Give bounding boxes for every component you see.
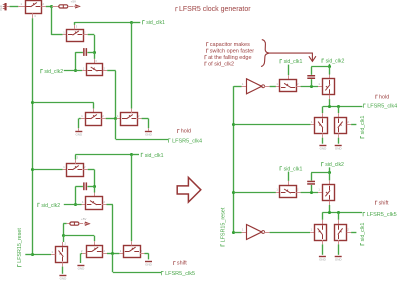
big transformation arrow	[177, 177, 201, 202]
junction shift node	[111, 252, 114, 255]
wire +5V node down	[51, 6, 53, 35]
junction sid_clk2 lower	[74, 203, 77, 206]
svg-text:2: 2	[43, 2, 45, 6]
pin 3 of S19 (bottom)	[322, 240, 324, 244]
pin 4 of S13 (top)	[288, 75, 290, 79]
ground GND5	[145, 262, 153, 267]
svg-text:2: 2	[138, 114, 140, 118]
net label LFSR15_reset (right)	[220, 207, 226, 246]
svg-text:1: 1	[52, 250, 54, 254]
wire to C4 top	[311, 172, 330, 174]
pin 3 of S14 (bottom)	[329, 95, 331, 99]
svg-text:3: 3	[76, 25, 78, 29]
switch S1	[26, 1, 42, 14]
junction LFSR15_reset	[31, 253, 34, 256]
title text "LFSR5 clock generator"	[176, 6, 251, 13]
comment line 2 "switch open faster"	[207, 48, 255, 54]
pin 4 of S2 (top)	[74, 25, 76, 29]
wire S18 down to shift node	[329, 205, 331, 212]
wire S17 right	[301, 192, 318, 194]
wire C1 left lead	[75, 52, 83, 54]
gnd pin S5	[148, 128, 150, 131]
pin 2 of S1	[41, 6, 45, 8]
wire shift to S20 top	[338, 212, 340, 219]
pin 2 of S16 (top)	[338, 113, 340, 117]
wire V4 to S17 left	[234, 192, 276, 194]
pin 2 of S20 (top)	[338, 220, 340, 224]
wire S13 right	[301, 86, 318, 88]
svg-text:1: 1	[318, 82, 320, 86]
solder jumper SJ2	[70, 222, 79, 226]
wire sid_clk2 stub down lower	[329, 167, 331, 173]
wire TP1 to S1	[10, 6, 19, 8]
pin number 1 of S5	[117, 114, 119, 118]
svg-text:1: 1	[117, 114, 119, 118]
junction hold S14	[328, 105, 331, 108]
pin number 1 of S12	[120, 249, 122, 253]
wire down to S11 top	[94, 236, 96, 242]
capacitor C2	[83, 182, 87, 190]
wire LFSR5_clk4 horizontal	[116, 139, 168, 141]
svg-text:GND: GND	[60, 276, 68, 280]
svg-text:LFSR5 clock generator: LFSR5 clock generator	[179, 6, 251, 13]
svg-text:LFSR15_reset: LFSR15_reset	[220, 207, 226, 242]
pin 1 of S12	[119, 253, 123, 255]
wire S3 right	[107, 70, 116, 72]
wire V3 sid_clk1 vertical	[131, 155, 133, 242]
wire label to S13 top	[288, 65, 290, 76]
comment line 1 "capacitor makes"	[207, 42, 250, 48]
svg-text:2: 2	[65, 242, 67, 246]
wire S7 right	[107, 204, 113, 206]
text shift (right)	[375, 200, 389, 206]
svg-text:LFSR5_clk5: LFSR5_clk5	[367, 212, 397, 218]
pin 2 of S4	[101, 118, 105, 120]
wire +5V lower lead	[63, 223, 66, 225]
pin 4 of S17 (top)	[288, 181, 290, 185]
pin number 1 of S6	[63, 165, 65, 169]
wire C2 left lead	[75, 186, 83, 188]
wire down to S10 top	[63, 236, 65, 242]
pin 1 of S7	[82, 204, 86, 206]
svg-text:1: 1	[311, 120, 313, 124]
svg-text:3: 3	[95, 59, 97, 63]
wire U1 to S13	[270, 86, 276, 88]
comment line 3 "at the falling edge"	[205, 55, 252, 61]
wire V4 top to buffer U1	[234, 86, 242, 88]
junction V1 tap mid	[31, 168, 34, 171]
wire C1 right lead	[87, 52, 94, 54]
switch S10	[56, 247, 68, 263]
wire S7 down to shift node	[112, 205, 114, 254]
wire C2 to sid_clk2 node	[75, 187, 77, 205]
switch S19	[315, 225, 327, 241]
pin 2 of S17	[296, 192, 300, 194]
pin 1 of S19	[310, 232, 314, 234]
pin 2 of U1 output	[264, 86, 269, 88]
svg-text:sid_clk1: sid_clk1	[284, 59, 303, 65]
svg-text:GND: GND	[145, 263, 153, 267]
svg-text:capacitor makes: capacitor makes	[210, 42, 250, 48]
pin 1 of S5	[117, 118, 121, 120]
junction shift S18	[328, 211, 331, 214]
svg-text:sid_clk2: sid_clk2	[41, 203, 60, 209]
pin 2 of S18 (top)	[329, 180, 331, 184]
wire S6 top up	[75, 155, 77, 160]
wire V1 vertical from S1 down	[32, 18, 34, 254]
net label sid_clk1 (top right)	[280, 59, 302, 65]
pin number 2 of S17	[297, 188, 299, 192]
wire S2 right	[88, 34, 95, 36]
pin 3 of S18 (bottom)	[329, 201, 331, 205]
wire shift node down	[112, 253, 114, 272]
net label sid_clk2 (lower left)	[38, 203, 60, 209]
gnd pin S4	[78, 128, 80, 131]
svg-text:1: 1	[242, 228, 244, 232]
comment line 4 "of sid_clk2"	[205, 61, 234, 67]
ground GND2	[145, 132, 153, 137]
pin 2 of S7	[102, 204, 106, 206]
pin 3 of S15 (bottom)	[322, 133, 324, 137]
pin number 1 of S1	[21, 2, 23, 6]
pin number 2 of S2	[84, 30, 86, 34]
switch S7	[86, 197, 103, 210]
svg-text:sid_clk1: sid_clk1	[360, 116, 366, 135]
wire S5 right	[142, 118, 149, 120]
wire to S2 left	[51, 34, 62, 36]
wire S11 to S12	[107, 253, 119, 255]
ground GND1	[75, 132, 83, 137]
svg-text:2: 2	[347, 228, 349, 232]
switch S16	[335, 118, 347, 134]
pin 1 of S13	[276, 86, 280, 88]
wire V1 to S10	[33, 254, 51, 256]
svg-text:2: 2	[297, 82, 299, 86]
pin number 2 of S7	[104, 200, 106, 204]
net label sid_clk2 (top right)	[322, 59, 344, 65]
svg-text:2: 2	[104, 66, 106, 70]
net label LFSR5_clk5 (right)	[363, 212, 397, 218]
pin 2 of SJ1	[68, 6, 74, 8]
pin 1 of S6	[63, 169, 67, 171]
pin number 2 of S16	[347, 120, 349, 124]
pin number 2 of S4	[102, 114, 104, 118]
net label LFSR5_clk5 (left)	[162, 271, 196, 277]
pin number 1 of S17	[276, 188, 278, 192]
wire gnd drop S11	[80, 253, 82, 263]
wire sid_clk2 down to S18	[329, 173, 331, 181]
pin 2 of S5	[137, 118, 141, 120]
wire V2 sid_clk1 vertical	[131, 22, 133, 109]
ground GND3	[59, 276, 67, 281]
pin 2 of S12	[140, 253, 144, 255]
pin 1 of S14	[318, 86, 322, 88]
svg-text:1: 1	[276, 82, 278, 86]
text shift (left)	[174, 261, 188, 267]
wire V1 to S4 top	[33, 102, 94, 104]
svg-text:2: 2	[81, 249, 83, 253]
pin 3 of S20 (bottom)	[338, 240, 340, 244]
switch S12	[124, 246, 141, 258]
pin 1 of S4	[81, 118, 85, 120]
pin 1 of S20 right	[347, 232, 351, 234]
svg-text:2: 2	[347, 120, 349, 124]
wire S6 right	[88, 169, 95, 171]
pin 1 of U2	[242, 232, 247, 234]
wire sid_clk2 down to S14	[329, 67, 331, 75]
switch S5	[121, 113, 138, 126]
wire S20 to gnd	[338, 244, 340, 254]
pin number 2 of S6	[84, 165, 86, 169]
wire S4 to S5	[106, 118, 117, 120]
wire S3 down to hold node	[115, 71, 117, 119]
svg-text:sid_clk1: sid_clk1	[360, 223, 366, 242]
pin 4 of S5 (top)	[131, 109, 133, 113]
svg-text:of sid_clk2: of sid_clk2	[208, 61, 234, 67]
svg-text:1: 1	[63, 30, 65, 34]
svg-text:GND: GND	[78, 266, 86, 270]
pin number 1 of U2	[242, 228, 244, 232]
pin 3 of S10 (bottom)	[62, 262, 64, 266]
wire down to S7 top	[94, 187, 96, 193]
pin number 1 of U1	[242, 82, 244, 86]
svg-text:1: 1	[120, 249, 122, 253]
pin 4 of S4 (top)	[93, 109, 95, 113]
pin 2 of S6	[83, 169, 87, 171]
buffer U1	[247, 79, 265, 94]
ground GND9	[335, 257, 343, 262]
wire S19 to gnd	[322, 244, 324, 254]
pin 2 of SJ2	[79, 223, 83, 225]
wire V4 to S15 left	[234, 124, 311, 126]
pin 1 of S3	[82, 70, 86, 72]
pin 2 of S15 (top)	[322, 113, 324, 117]
wire C3 top lead	[311, 67, 313, 75]
pin 2 of S3	[103, 70, 107, 72]
ground GND6	[319, 146, 327, 151]
wire gnd drop S4	[78, 119, 80, 129]
svg-text:shift: shift	[379, 200, 389, 206]
pin 1 of S16 right	[347, 124, 351, 126]
wire LFSR5_clk5 horizontal	[113, 272, 161, 274]
wire C4 bottom lead	[311, 185, 313, 192]
pin 2 of S19 (top)	[322, 220, 324, 224]
switch S20	[335, 225, 347, 241]
switch S18	[323, 185, 335, 201]
svg-text:3: 3	[77, 155, 79, 159]
pin number 2 of S11	[104, 249, 106, 253]
svg-text:3: 3	[34, 14, 36, 18]
net label LFSR5_clk4 (right)	[364, 104, 398, 110]
pin number 2 of S3	[104, 66, 106, 70]
switch S11	[87, 246, 103, 258]
wire sid_clk1 lower label stub	[132, 154, 139, 156]
junction V1 tap upper	[31, 101, 34, 104]
svg-text:1: 1	[63, 165, 65, 169]
pin number 2 of S20	[347, 228, 349, 232]
wire S2 top up	[74, 22, 76, 25]
junction +5V node	[50, 5, 53, 8]
svg-text:+5V: +5V	[81, 217, 86, 221]
pin 4 of S11 (top)	[94, 241, 96, 245]
pin 2 of U2 output	[264, 232, 269, 234]
wire hold to S15 top	[322, 106, 324, 113]
wire S12 right	[144, 253, 148, 255]
svg-text:2: 2	[84, 165, 86, 169]
wire label to S17 top	[288, 172, 290, 181]
wire down to S4	[93, 103, 95, 109]
pin 2 of S13	[296, 86, 300, 88]
pin number 1 of S7	[82, 200, 84, 204]
pin 1 of S2	[63, 34, 67, 36]
wire +5V node right	[63, 235, 94, 237]
junction sid_clk1	[130, 21, 133, 24]
wire sid_clk2 to S3	[64, 70, 82, 72]
net label sid_clk1 (upper)	[143, 20, 165, 26]
wire C1 to sid_clk2 node	[75, 52, 77, 71]
wire hold to S16 top	[338, 106, 340, 113]
pin number 2 of S10	[65, 242, 67, 246]
wire V1 to S6	[33, 169, 63, 171]
wire C2 right lead	[87, 186, 94, 188]
svg-text:sid_clk1: sid_clk1	[146, 20, 165, 26]
svg-text:1: 1	[81, 114, 83, 118]
wire S14 down to hold node	[329, 99, 331, 106]
pin number 2 of S1	[43, 2, 45, 6]
junction C4 bottom	[310, 191, 313, 194]
solder jumper SJ1	[59, 5, 68, 9]
wire shift node horizontal	[322, 212, 362, 214]
pin 1 of SJ2	[67, 223, 70, 225]
junction C3 bottom	[310, 85, 313, 88]
+5V supply arrow lower	[81, 217, 89, 226]
pin 2 of S2	[83, 34, 87, 36]
wire hold node down	[115, 119, 117, 140]
switch S3	[87, 64, 103, 76]
net label LFSR5_clk4 (left)	[169, 138, 203, 144]
wire S16 right stub	[351, 124, 356, 126]
pin number 3 of S2	[76, 25, 78, 29]
wire gnd drop S5	[148, 119, 150, 129]
svg-text:hold: hold	[379, 94, 389, 100]
pin number 3 of S1	[34, 14, 36, 18]
junction shift S20	[337, 211, 340, 214]
ground GND8	[319, 257, 327, 262]
junction +5V lower node	[62, 234, 65, 237]
wire V4 to buffer U2	[234, 232, 242, 234]
pin 2 of S11	[103, 253, 107, 255]
junction sid_clk2 right	[328, 65, 331, 68]
pin number 2 of S12	[141, 249, 143, 253]
svg-text:GND: GND	[319, 258, 327, 262]
pin 4 of S3 (top)	[94, 59, 96, 63]
svg-text:2: 2	[297, 188, 299, 192]
junction C2 right	[93, 185, 96, 188]
wire sid_clk2 stub down	[329, 64, 331, 67]
svg-text:hold: hold	[181, 129, 191, 135]
pin 1 of U1	[242, 86, 247, 88]
pin 1 of S10	[51, 254, 55, 256]
annotation brace	[261, 40, 270, 67]
ground GND4	[77, 266, 85, 271]
svg-text:1: 1	[242, 82, 244, 86]
wire hold node horizontal	[323, 106, 363, 108]
junction sid_clk2 upper	[74, 69, 77, 72]
wire S11 left to gnd	[81, 253, 82, 255]
pin number 2 of S13	[297, 82, 299, 86]
svg-text:LFSR5_clk5: LFSR5_clk5	[165, 271, 195, 277]
svg-text:LFSR5_clk4: LFSR5_clk4	[172, 138, 202, 144]
svg-text:GND: GND	[335, 146, 343, 150]
svg-text:1: 1	[21, 2, 23, 6]
svg-text:1: 1	[311, 228, 313, 232]
svg-text:2: 2	[102, 114, 104, 118]
pin number 1 of S19	[311, 228, 313, 232]
svg-text:+5V: +5V	[71, 0, 76, 4]
svg-text:LFSR5_clk4: LFSR5_clk4	[367, 104, 397, 110]
wire down to S3 top	[94, 52, 96, 59]
wire S1 to +5V node	[46, 6, 52, 8]
pin number 2 of S11	[81, 249, 83, 253]
svg-text:1: 1	[83, 66, 85, 70]
wire S4 left to gnd	[79, 118, 81, 120]
junction hold S16	[337, 105, 340, 108]
net label sid_clk1 rotated (top right)	[360, 116, 366, 138]
wire sid_clk1 lower horizontal	[75, 154, 132, 156]
svg-text:GND: GND	[320, 146, 328, 150]
junction V4 bottom	[232, 231, 235, 234]
pin number 2 of S5	[138, 114, 140, 118]
svg-text:LFSR15_reset: LFSR15_reset	[17, 228, 23, 263]
pin 4 of S12 (top)	[131, 241, 133, 245]
pin 4 of S7 (top)	[94, 193, 96, 197]
svg-text:sid_clk2: sid_clk2	[326, 59, 345, 65]
pin number 1 of S14	[318, 82, 320, 86]
svg-text:sid_clk1: sid_clk1	[145, 153, 164, 159]
wire +5V down	[63, 224, 65, 236]
svg-text:at the falling edge: at the falling edge	[208, 55, 251, 61]
pin 1 of S18	[318, 192, 322, 194]
pin 2 of S14 (top)	[329, 75, 331, 79]
+5V supply arrow	[71, 0, 80, 8]
junction V4 tap S17	[232, 191, 235, 194]
pin number 1 of S3	[83, 66, 85, 70]
wire gnd drop S12	[148, 253, 150, 259]
pin 1 of S17	[276, 192, 280, 194]
pin 3 of S1 (bottom)	[32, 13, 34, 18]
switch S13	[280, 80, 297, 92]
pin 1 of SJ1	[51, 6, 59, 8]
svg-text:sid_clk2: sid_clk2	[44, 69, 63, 75]
pin number 1 of S13	[276, 82, 278, 86]
wire S20 right stub	[351, 232, 356, 234]
svg-text:switch open faster: switch open faster	[210, 48, 254, 54]
pin 2 of S10 (top)	[62, 242, 64, 246]
switch S15	[315, 118, 328, 134]
svg-text:2: 2	[104, 249, 106, 253]
svg-text:GND: GND	[335, 258, 343, 262]
junction sid_clk1 lower	[130, 153, 133, 156]
wire shift to S19 top	[322, 212, 324, 219]
junction C1 right	[93, 51, 96, 54]
pin 1 of S1	[18, 6, 25, 8]
net label sid_clk1 (lower left)	[141, 153, 163, 159]
net label sid_clk2 (upper left)	[41, 69, 63, 75]
svg-text:GND: GND	[145, 132, 153, 136]
svg-text:1: 1	[318, 188, 320, 192]
pin number 3 of S6	[77, 155, 79, 159]
switch S4	[86, 113, 102, 126]
